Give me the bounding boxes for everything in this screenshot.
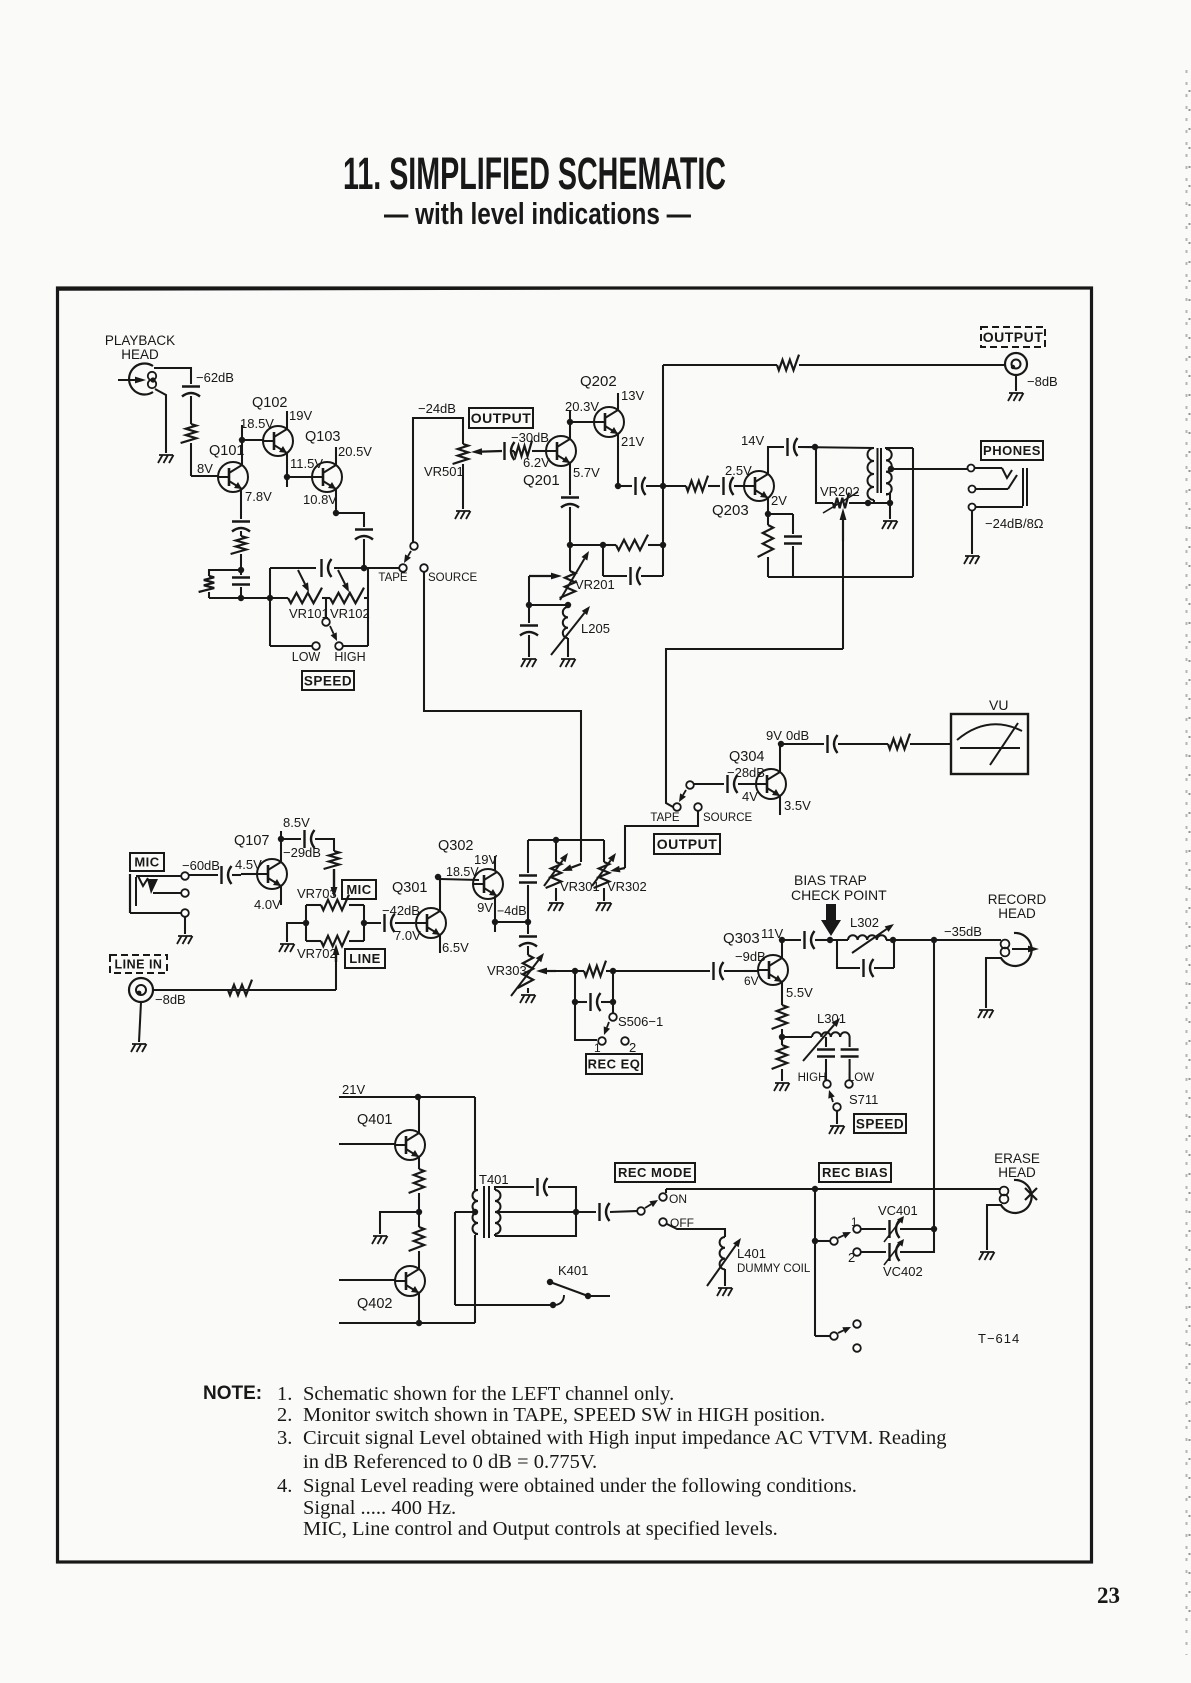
svg-text:Monitor switch shown in TAPE,: Monitor switch shown in TAPE, SPEED SW i… [303, 1404, 825, 1426]
svg-text:4.0V: 4.0V [254, 897, 281, 912]
svg-text:VC401: VC401 [878, 1203, 918, 1218]
svg-text:S711: S711 [849, 1092, 878, 1107]
svg-text:21V: 21V [342, 1082, 365, 1097]
svg-text:REC MODE: REC MODE [618, 1165, 692, 1180]
svg-text:7.8V: 7.8V [245, 489, 272, 504]
svg-text:DUMMY COIL: DUMMY COIL [737, 1263, 811, 1275]
svg-text:ON: ON [669, 1192, 687, 1206]
svg-text:LINE: LINE [349, 951, 381, 966]
svg-text:4.: 4. [277, 1475, 292, 1497]
svg-text:−24dB: −24dB [418, 401, 456, 416]
svg-text:CHECK POINT: CHECK POINT [791, 887, 887, 903]
svg-text:ERASE: ERASE [994, 1151, 1040, 1166]
svg-text:5.5V: 5.5V [786, 985, 813, 1000]
svg-text:VR301: VR301 [560, 879, 600, 894]
svg-text:VR102: VR102 [330, 606, 370, 621]
svg-text:HIGH: HIGH [334, 650, 365, 664]
svg-text:−62dB: −62dB [196, 370, 234, 385]
svg-text:HEAD: HEAD [998, 906, 1036, 921]
svg-text:SPEED: SPEED [856, 1116, 904, 1131]
svg-text:Q203: Q203 [712, 502, 749, 519]
svg-text:K401: K401 [558, 1263, 588, 1278]
svg-text:19V: 19V [474, 852, 497, 867]
svg-text:BIAS TRAP: BIAS TRAP [794, 872, 867, 888]
svg-text:9V: 9V [477, 900, 493, 915]
svg-text:4V: 4V [742, 789, 758, 804]
svg-text:LOW: LOW [292, 650, 321, 664]
svg-text:Q304: Q304 [729, 749, 764, 765]
svg-text:VR501: VR501 [424, 464, 464, 479]
svg-text:VR201: VR201 [575, 577, 615, 592]
svg-text:SPEED: SPEED [304, 673, 352, 688]
svg-text:−30dB: −30dB [511, 430, 549, 445]
svg-text:Q202: Q202 [580, 373, 617, 390]
svg-text:Schematic shown for the LEFT c: Schematic shown for the LEFT channel onl… [303, 1383, 674, 1405]
svg-text:HEAD: HEAD [998, 1165, 1036, 1180]
svg-text:13V: 13V [621, 388, 644, 403]
svg-text:OUTPUT: OUTPUT [657, 836, 718, 852]
svg-text:L205: L205 [581, 621, 610, 636]
svg-text:−4dB: −4dB [497, 904, 527, 918]
svg-text:−24dB/8Ω: −24dB/8Ω [985, 516, 1044, 531]
svg-text:L301: L301 [817, 1011, 846, 1026]
svg-text:21V: 21V [621, 434, 644, 449]
svg-text:14V: 14V [741, 433, 764, 448]
svg-text:2V: 2V [771, 493, 787, 508]
svg-text:Circuit signal Level obtained: Circuit signal Level obtained with High … [303, 1427, 947, 1449]
svg-text:T−614: T−614 [978, 1331, 1020, 1346]
svg-text:L401: L401 [737, 1246, 766, 1261]
svg-text:Q107: Q107 [234, 833, 269, 849]
svg-text:TAPE: TAPE [378, 572, 408, 584]
svg-text:11. SIMPLIFIED SCHEMATIC: 11. SIMPLIFIED SCHEMATIC [343, 148, 726, 199]
svg-text:Q201: Q201 [523, 472, 560, 489]
svg-text:S506−1: S506−1 [618, 1014, 663, 1029]
svg-text:3.: 3. [277, 1427, 292, 1449]
svg-text:20.5V: 20.5V [338, 444, 372, 459]
svg-text:LINE IN: LINE IN [115, 958, 163, 972]
svg-text:RECORD: RECORD [988, 892, 1047, 907]
svg-text:MIC, Line control and Output c: MIC, Line control and Output controls at… [303, 1518, 778, 1540]
svg-text:OUTPUT: OUTPUT [471, 410, 532, 426]
svg-text:NOTE:: NOTE: [203, 1383, 262, 1404]
svg-text:Q401: Q401 [357, 1112, 392, 1128]
svg-text:6V: 6V [744, 974, 759, 988]
svg-text:SOURCE: SOURCE [703, 812, 753, 824]
svg-text:−8dB: −8dB [1027, 374, 1058, 389]
svg-text:PHONES: PHONES [983, 443, 1041, 458]
svg-text:2: 2 [629, 1040, 636, 1055]
svg-text:9V: 9V [766, 728, 782, 743]
svg-text:VR702: VR702 [297, 946, 337, 961]
svg-text:VC402: VC402 [883, 1264, 923, 1279]
svg-text:−60dB: −60dB [182, 858, 220, 873]
svg-text:LOW: LOW [848, 1072, 874, 1084]
svg-text:−28dB: −28dB [727, 765, 765, 780]
svg-text:2: 2 [848, 1250, 855, 1265]
svg-text:−42dB: −42dB [382, 903, 420, 918]
svg-text:11.5V: 11.5V [290, 456, 323, 471]
svg-text:8V: 8V [197, 461, 213, 476]
svg-text:Q101: Q101 [209, 443, 244, 459]
svg-text:23: 23 [1097, 1583, 1120, 1608]
svg-text:−29dB: −29dB [283, 845, 321, 860]
svg-text:0dB: 0dB [786, 728, 809, 743]
svg-text:3.5V: 3.5V [784, 798, 811, 813]
svg-text:Signal ..... 400 Hz.: Signal ..... 400 Hz. [303, 1497, 456, 1519]
svg-text:Q102: Q102 [252, 395, 287, 411]
svg-text:Q103: Q103 [305, 429, 340, 445]
svg-text:T401: T401 [479, 1172, 509, 1187]
svg-text:1.: 1. [277, 1383, 292, 1405]
svg-text:OUTPUT: OUTPUT [983, 329, 1044, 345]
svg-text:6.5V: 6.5V [442, 940, 469, 955]
svg-text:8.5V: 8.5V [283, 815, 310, 830]
svg-text:SOURCE: SOURCE [428, 572, 478, 584]
svg-text:4.5V: 4.5V [235, 857, 262, 872]
svg-text:1: 1 [594, 1041, 601, 1055]
svg-text:VR302: VR302 [607, 879, 647, 894]
svg-text:6.2V: 6.2V [523, 455, 550, 470]
svg-text:10.8V: 10.8V [303, 492, 337, 507]
svg-text:REC BIAS: REC BIAS [822, 1165, 888, 1180]
svg-text:−8dB: −8dB [155, 992, 186, 1007]
svg-text:in dB Referenced to 0 dB = 0.7: in dB Referenced to 0 dB = 0.775V. [303, 1451, 597, 1473]
svg-text:VR703: VR703 [297, 886, 337, 901]
svg-text:L302: L302 [850, 915, 879, 930]
svg-text:Q402: Q402 [357, 1296, 392, 1312]
svg-text:HIGH: HIGH [798, 1072, 827, 1084]
svg-text:Q301: Q301 [392, 880, 427, 896]
svg-text:TAPE: TAPE [650, 812, 680, 824]
svg-text:Q302: Q302 [438, 838, 473, 854]
svg-text:−35dB: −35dB [944, 924, 982, 939]
svg-text:5.7V: 5.7V [573, 465, 600, 480]
svg-text:20.3V: 20.3V [565, 399, 599, 414]
svg-text:Signal Level reading were obta: Signal Level reading were obtained under… [303, 1475, 857, 1497]
svg-text:VR303: VR303 [487, 963, 527, 978]
svg-text:Q303: Q303 [723, 930, 760, 947]
svg-text:REC EQ: REC EQ [588, 1057, 641, 1072]
svg-text:MIC: MIC [134, 855, 159, 870]
svg-text:PLAYBACK: PLAYBACK [105, 333, 175, 348]
svg-text:— with level indications —: — with level indications — [384, 196, 691, 231]
svg-text:19V: 19V [289, 408, 312, 423]
svg-text:2.: 2. [277, 1404, 292, 1426]
svg-text:1: 1 [851, 1217, 857, 1229]
svg-text:VR202: VR202 [820, 484, 860, 499]
svg-text:VU: VU [989, 697, 1008, 713]
svg-text:HEAD: HEAD [121, 347, 159, 362]
svg-text:MIC: MIC [346, 882, 371, 897]
